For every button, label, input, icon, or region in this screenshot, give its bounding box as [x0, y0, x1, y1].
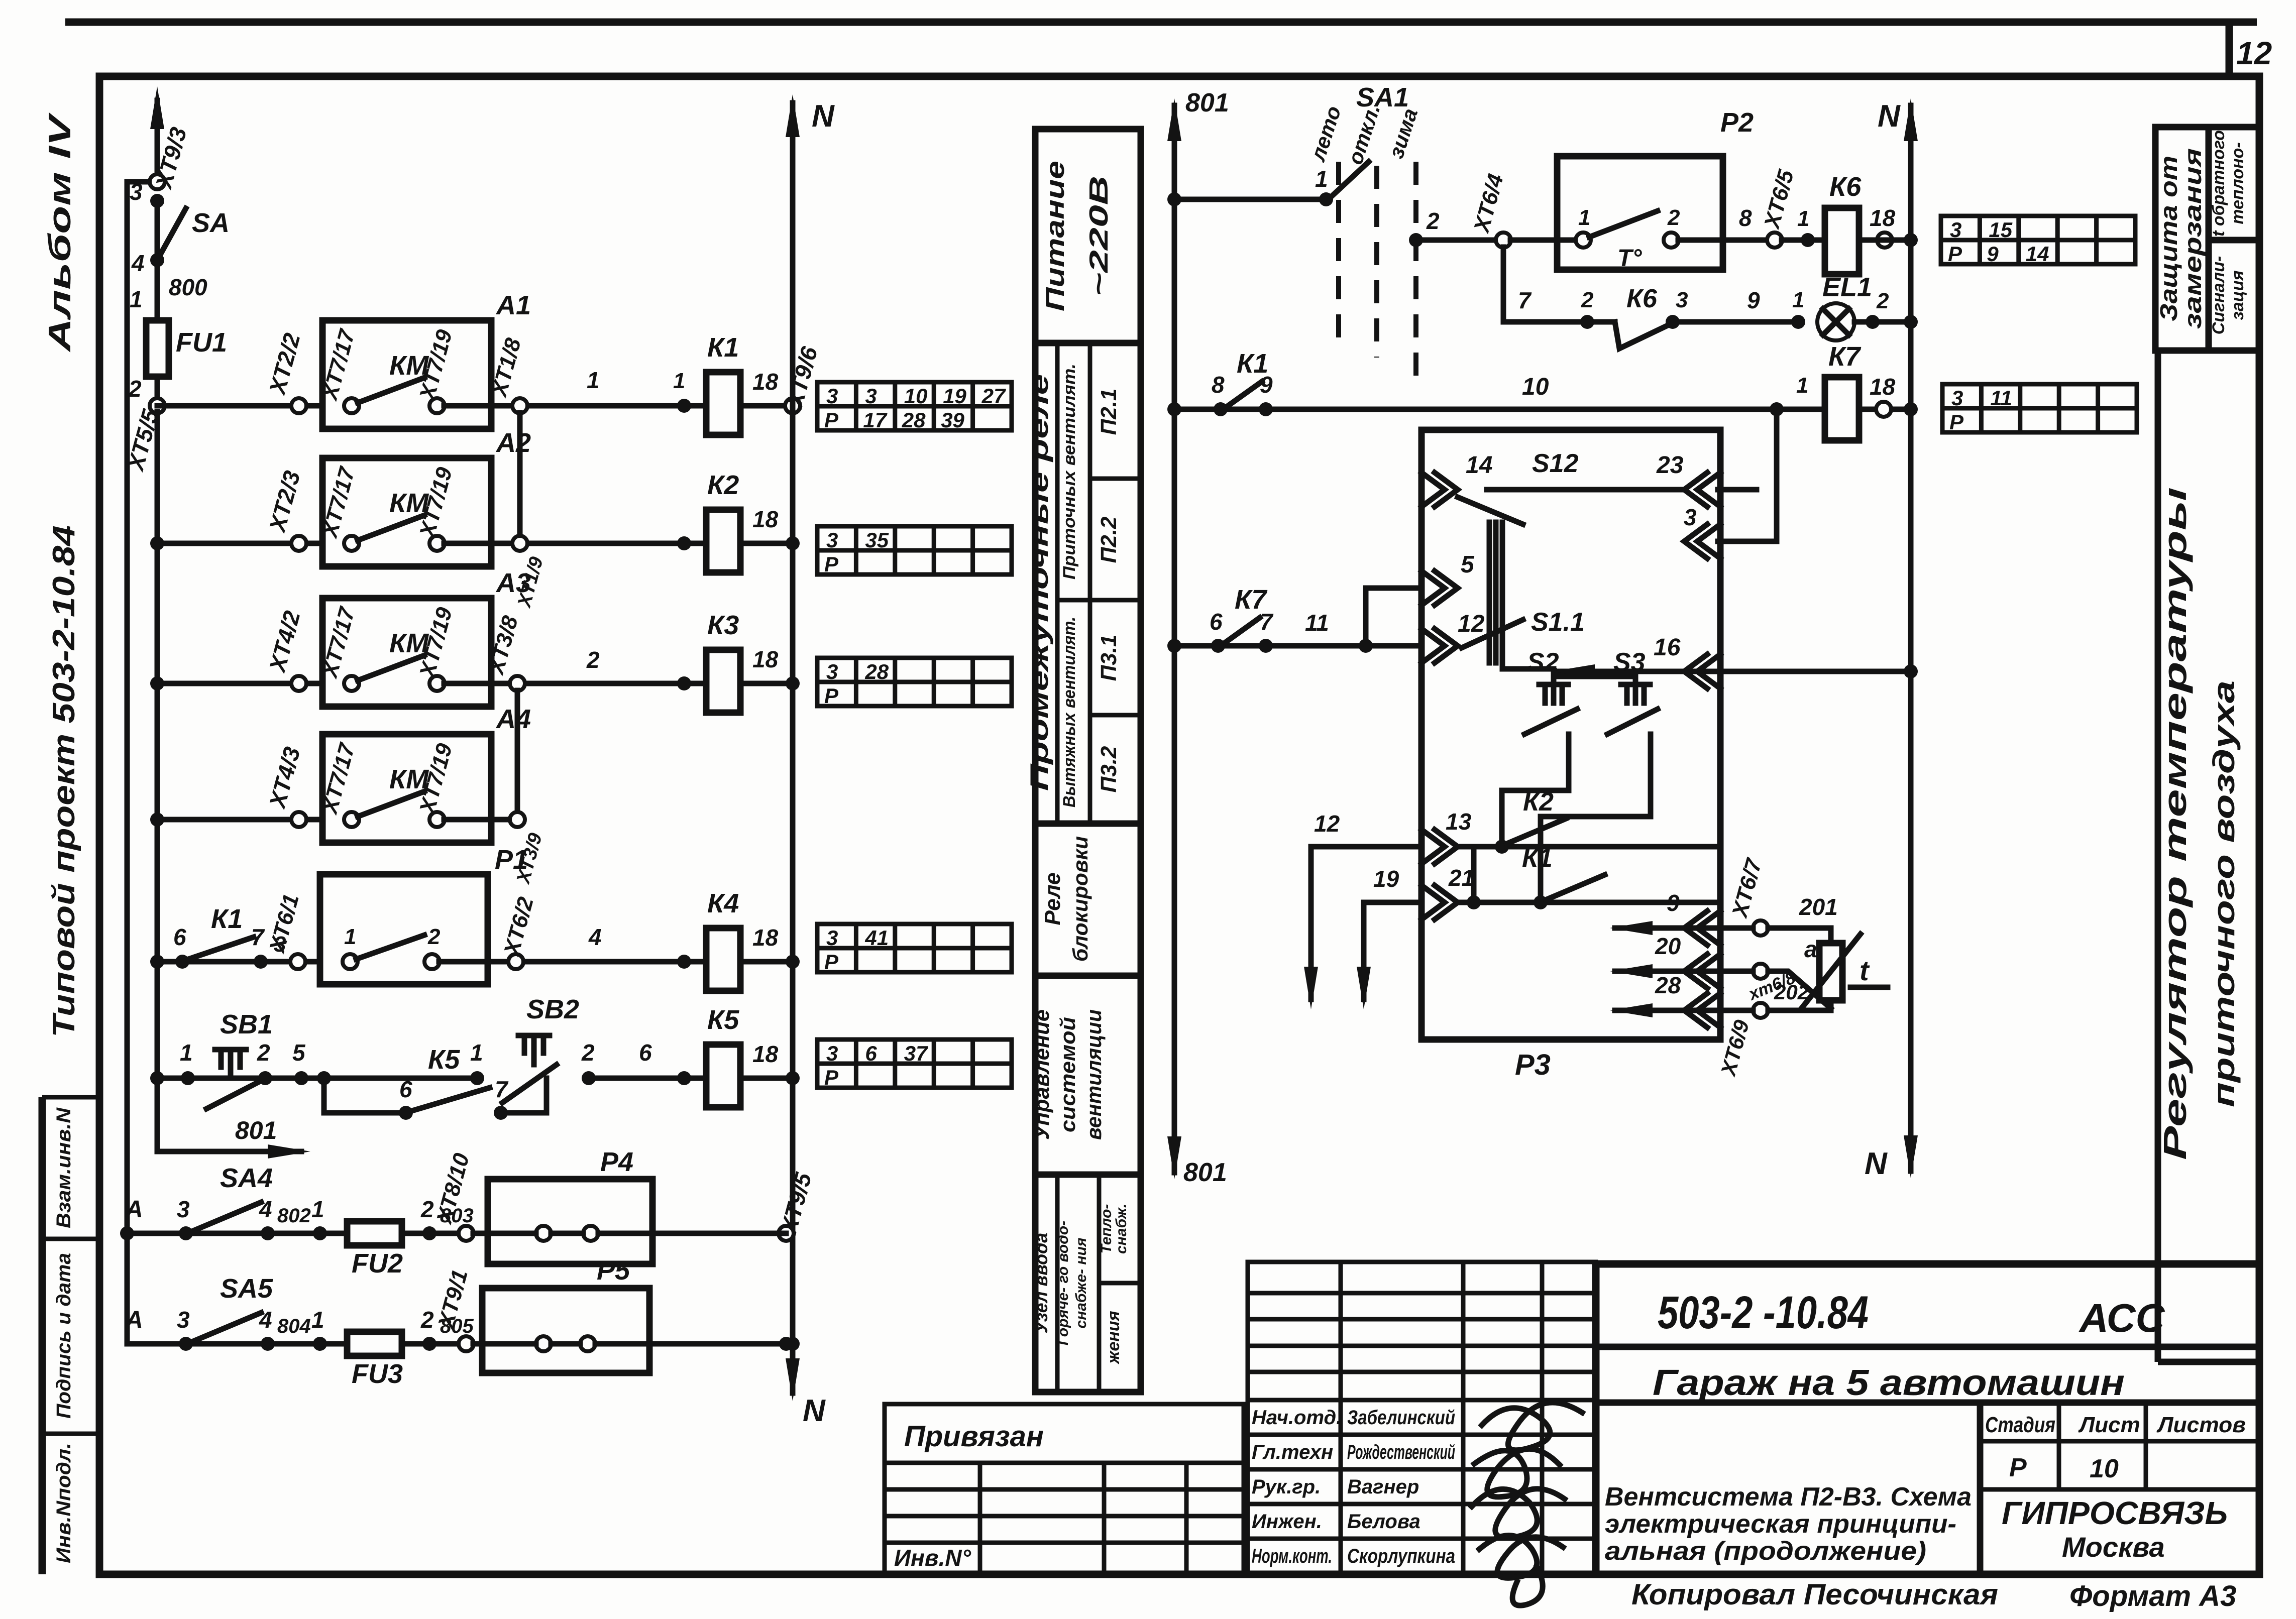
svg-text:К2: К2 [707, 470, 739, 500]
svg-text:Р3: Р3 [1515, 1049, 1551, 1081]
svg-text:Лист: Лист [2078, 1413, 2140, 1437]
svg-text:S12: S12 [1532, 449, 1579, 478]
svg-text:4: 4 [259, 1196, 272, 1222]
svg-text:вентиляции: вентиляции [1082, 1009, 1106, 1140]
svg-text:17: 17 [863, 408, 887, 432]
svg-text:3: 3 [826, 384, 838, 408]
svg-text:Белова: Белова [1347, 1511, 1420, 1533]
svg-text:18: 18 [752, 369, 779, 395]
svg-text:Рождественский: Рождественский [1347, 1441, 1455, 1463]
svg-text:6: 6 [1210, 609, 1223, 635]
svg-text:28: 28 [902, 408, 926, 432]
svg-text:P2: P2 [1720, 107, 1754, 138]
svg-text:Рук.гр.: Рук.гр. [1252, 1476, 1321, 1498]
svg-text:Инв.Nподл.: Инв.Nподл. [53, 1443, 75, 1563]
svg-text:503-2 -10.84: 503-2 -10.84 [1658, 1287, 1869, 1338]
svg-text:41: 41 [864, 926, 889, 950]
svg-text:П3.1: П3.1 [1097, 635, 1121, 681]
svg-text:N: N [812, 99, 835, 134]
svg-text:К5: К5 [707, 1005, 739, 1035]
svg-text:зация: зация [2228, 270, 2247, 320]
svg-text:Приточных вентилят.: Приточных вентилят. [1060, 364, 1079, 580]
svg-text:6: 6 [399, 1076, 412, 1102]
svg-text:Горяче- го водо-: Горяче- го водо- [1055, 1221, 1071, 1345]
svg-text:1: 1 [180, 1039, 193, 1066]
svg-text:A2: A2 [495, 428, 531, 458]
svg-text:801: 801 [1183, 1158, 1227, 1187]
svg-text:N: N [803, 1394, 826, 1428]
svg-text:18: 18 [1870, 205, 1896, 231]
svg-text:снабж.: снабж. [1113, 1204, 1130, 1254]
svg-text:28: 28 [864, 660, 889, 683]
svg-text:6: 6 [865, 1042, 877, 1065]
svg-text:8: 8 [1212, 372, 1225, 398]
svg-text:Р: Р [1948, 242, 1962, 266]
svg-text:1: 1 [344, 924, 356, 949]
svg-text:10: 10 [2090, 1454, 2119, 1483]
svg-text:a: a [1804, 936, 1817, 962]
svg-text:Р: Р [824, 552, 839, 576]
svg-text:2: 2 [586, 647, 600, 673]
svg-text:3: 3 [826, 528, 838, 552]
svg-text:3: 3 [865, 384, 877, 408]
svg-text:3: 3 [1684, 504, 1697, 530]
svg-text:Забелинский: Забелинский [1347, 1407, 1455, 1429]
svg-text:A4: A4 [495, 704, 531, 734]
svg-text:Регулятор температуры: Регулятор температуры [2157, 487, 2193, 1160]
svg-text:Узел ввода: Узел ввода [1031, 1233, 1051, 1334]
svg-text:2: 2 [257, 1039, 270, 1066]
svg-text:Стадия: Стадия [1985, 1413, 2055, 1437]
svg-text:АСС: АСС [2079, 1296, 2165, 1340]
svg-text:18: 18 [752, 646, 779, 672]
svg-text:18: 18 [752, 924, 779, 951]
svg-text:FU1: FU1 [176, 327, 227, 358]
svg-text:2: 2 [1426, 208, 1440, 234]
svg-text:П2.2: П2.2 [1097, 516, 1121, 563]
svg-text:К5: К5 [428, 1045, 460, 1075]
svg-text:19: 19 [943, 384, 966, 408]
svg-text:8: 8 [1739, 205, 1752, 231]
svg-text:19: 19 [1373, 866, 1399, 892]
svg-text:SA5: SA5 [220, 1274, 273, 1304]
svg-text:S3: S3 [1613, 648, 1646, 677]
svg-text:4: 4 [588, 924, 602, 950]
svg-text:801: 801 [235, 1116, 277, 1144]
svg-text:P4: P4 [600, 1147, 633, 1177]
svg-text:Р: Р [1949, 410, 1964, 434]
svg-text:К6: К6 [1626, 284, 1658, 313]
svg-text:18: 18 [752, 506, 779, 532]
svg-text:3: 3 [826, 1042, 838, 1065]
svg-text:П2.1: П2.1 [1097, 389, 1121, 435]
svg-text:Промежуточные реле: Промежуточные реле [1025, 374, 1053, 791]
svg-text:3: 3 [1951, 386, 1963, 410]
svg-text:Листов: Листов [2156, 1413, 2246, 1437]
svg-text:приточного воздуха: приточного воздуха [2207, 680, 2241, 1107]
svg-text:14: 14 [2026, 242, 2049, 266]
svg-text:39: 39 [941, 408, 964, 432]
svg-text:3: 3 [130, 179, 143, 205]
svg-text:Привязан: Привязан [904, 1420, 1044, 1453]
svg-text:1: 1 [1792, 288, 1804, 312]
svg-text:К1: К1 [211, 904, 243, 934]
svg-text:5: 5 [292, 1039, 306, 1066]
svg-text:35: 35 [865, 528, 889, 552]
svg-text:202: 202 [1774, 980, 1809, 1004]
svg-text:Формат А3: Формат А3 [2069, 1580, 2236, 1612]
svg-text:18: 18 [752, 1041, 779, 1067]
svg-text:21: 21 [1448, 865, 1474, 891]
svg-text:11: 11 [1305, 610, 1329, 636]
svg-text:Р: Р [2009, 1453, 2027, 1482]
svg-text:37: 37 [904, 1042, 928, 1065]
svg-text:P1: P1 [495, 845, 528, 875]
svg-text:12: 12 [2236, 35, 2272, 71]
svg-text:Гл.техн: Гл.техн [1252, 1441, 1333, 1463]
svg-text:EL1: EL1 [1822, 272, 1872, 302]
svg-text:7: 7 [251, 924, 265, 950]
svg-text:Р: Р [824, 1066, 839, 1089]
svg-text:3: 3 [177, 1196, 190, 1222]
svg-text:Питание: Питание [1041, 161, 1070, 311]
svg-text:9: 9 [1747, 287, 1760, 313]
svg-text:1: 1 [130, 286, 143, 312]
svg-text:Тепло-: Тепло- [1098, 1204, 1115, 1254]
svg-text:К1: К1 [707, 332, 739, 363]
svg-text:Москва: Москва [2062, 1531, 2165, 1563]
svg-text:9: 9 [1260, 372, 1273, 398]
svg-text:2: 2 [420, 1307, 434, 1333]
svg-text:A: A [125, 1307, 143, 1333]
svg-text:Инжен.: Инжен. [1252, 1511, 1322, 1533]
svg-text:12: 12 [1458, 611, 1485, 637]
svg-text:Норм.конт.: Норм.конт. [1252, 1545, 1332, 1567]
svg-text:27: 27 [981, 384, 1006, 408]
svg-text:Сигнали-: Сигнали- [2209, 256, 2228, 335]
svg-text:S1.1: S1.1 [1531, 608, 1585, 637]
svg-text:1: 1 [673, 369, 685, 393]
svg-text:6: 6 [639, 1039, 652, 1066]
svg-text:П3.2: П3.2 [1097, 746, 1121, 792]
svg-text:Копировал Песочинская: Копировал Песочинская [1631, 1578, 1998, 1611]
svg-text:Вагнер: Вагнер [1347, 1476, 1419, 1498]
svg-text:3: 3 [1676, 288, 1688, 312]
svg-text:Взам.инв.N: Взам.инв.N [53, 1107, 75, 1228]
svg-text:блокировки: блокировки [1068, 836, 1092, 962]
svg-text:28: 28 [1655, 972, 1681, 998]
svg-text:FU3: FU3 [352, 1359, 403, 1389]
svg-text:4: 4 [259, 1307, 272, 1333]
svg-text:Р: Р [824, 408, 839, 432]
svg-text:теплоно-: теплоно- [2228, 142, 2247, 224]
svg-text:A: A [125, 1196, 143, 1223]
svg-text:Р: Р [824, 684, 839, 708]
svg-text:Защита от: Защита от [2156, 156, 2182, 321]
svg-text:804: 804 [277, 1315, 311, 1337]
svg-text:Подпись и дата: Подпись и дата [53, 1253, 75, 1419]
svg-text:800: 800 [169, 274, 207, 300]
svg-text:1: 1 [1797, 206, 1809, 231]
svg-text:К2: К2 [1523, 787, 1554, 817]
svg-text:3: 3 [826, 660, 838, 683]
svg-text:снабже- ния: снабже- ния [1073, 1237, 1089, 1328]
svg-text:2: 2 [128, 376, 142, 402]
svg-text:жения: жения [1104, 1311, 1123, 1364]
svg-text:7: 7 [495, 1076, 509, 1102]
svg-text:2: 2 [427, 924, 441, 949]
svg-text:FU2: FU2 [352, 1248, 403, 1279]
svg-text:1: 1 [1796, 373, 1808, 398]
svg-text:Вытяжных вентилят.: Вытяжных вентилят. [1060, 617, 1079, 807]
svg-text:20: 20 [1655, 933, 1681, 959]
svg-text:801: 801 [1185, 88, 1229, 118]
svg-text:t: t [1860, 955, 1870, 986]
svg-text:3: 3 [177, 1307, 190, 1333]
svg-text:~220В: ~220В [1084, 176, 1114, 296]
svg-text:К7: К7 [1828, 341, 1862, 372]
svg-text:альная (продолжение): альная (продолжение) [1605, 1537, 1926, 1566]
svg-text:Т°: Т° [1617, 245, 1642, 272]
svg-text:Альбом IV: Альбом IV [43, 112, 77, 353]
svg-text:1: 1 [311, 1307, 324, 1333]
svg-text:ГИПРОСВЯЗЬ: ГИПРОСВЯЗЬ [2002, 1495, 2228, 1531]
svg-text:1: 1 [1578, 205, 1590, 230]
svg-text:2: 2 [1581, 288, 1594, 312]
svg-text:6: 6 [173, 924, 186, 950]
svg-text:Реле: Реле [1040, 872, 1065, 925]
svg-text:Р: Р [824, 950, 839, 974]
svg-text:Типовой проект 503-2-10.84: Типовой проект 503-2-10.84 [47, 525, 81, 1037]
svg-text:7: 7 [1518, 287, 1532, 313]
svg-text:11: 11 [1990, 386, 2012, 410]
svg-text:201: 201 [1799, 894, 1838, 920]
svg-text:2: 2 [1667, 205, 1680, 230]
svg-text:системой: системой [1056, 1017, 1079, 1132]
svg-text:1: 1 [470, 1039, 483, 1066]
svg-text:1: 1 [311, 1196, 324, 1222]
svg-text:N: N [1878, 99, 1901, 134]
svg-text:1: 1 [587, 367, 600, 393]
svg-text:Гараж на 5 автомашин: Гараж на 5 автомашин [1653, 1363, 2125, 1403]
svg-text:К3: К3 [707, 610, 739, 640]
svg-text:14: 14 [1466, 452, 1492, 479]
svg-text:9: 9 [1667, 890, 1680, 916]
svg-text:SA: SA [192, 208, 230, 238]
svg-text:23: 23 [1656, 452, 1684, 479]
svg-text:12: 12 [1314, 811, 1340, 837]
svg-text:10: 10 [1522, 374, 1549, 400]
svg-text:Инв.N°: Инв.N° [894, 1545, 971, 1571]
svg-text:802: 802 [277, 1205, 311, 1227]
svg-text:замерзания: замерзания [2180, 148, 2207, 329]
svg-text:5: 5 [1461, 551, 1475, 578]
svg-text:15: 15 [1989, 218, 2012, 242]
svg-text:t обратного: t обратного [2209, 130, 2228, 237]
svg-text:16: 16 [1654, 634, 1681, 661]
svg-text:К6: К6 [1829, 172, 1862, 202]
svg-text:4: 4 [131, 250, 145, 276]
svg-text:2: 2 [581, 1039, 595, 1066]
svg-text:N: N [1865, 1146, 1888, 1181]
svg-text:Скорлупкина: Скорлупкина [1347, 1545, 1455, 1567]
svg-text:13: 13 [1446, 808, 1472, 835]
svg-text:3: 3 [1950, 218, 1961, 242]
svg-text:SA4: SA4 [220, 1163, 273, 1193]
svg-text:10: 10 [904, 384, 928, 408]
svg-text:SB1: SB1 [220, 1009, 273, 1039]
svg-text:9: 9 [1987, 242, 1999, 266]
svg-text:К1: К1 [1522, 844, 1553, 873]
svg-text:18: 18 [1870, 374, 1896, 400]
svg-text:1: 1 [1315, 166, 1328, 192]
svg-text:Вентсистема П2-В3. Схема: Вентсистема П2-В3. Схема [1605, 1482, 1972, 1512]
svg-text:3: 3 [826, 926, 838, 950]
svg-text:A1: A1 [495, 290, 531, 320]
svg-text:2: 2 [1876, 289, 1889, 313]
svg-text:Управление: Управление [1030, 1009, 1053, 1140]
svg-text:электрическая принципи-: электрическая принципи- [1605, 1510, 1956, 1539]
svg-text:К4: К4 [707, 888, 739, 918]
svg-text:Нач.отд.: Нач.отд. [1252, 1407, 1342, 1429]
svg-text:P5: P5 [597, 1255, 630, 1286]
svg-text:SB2: SB2 [526, 994, 579, 1024]
svg-text:7: 7 [1260, 609, 1274, 635]
